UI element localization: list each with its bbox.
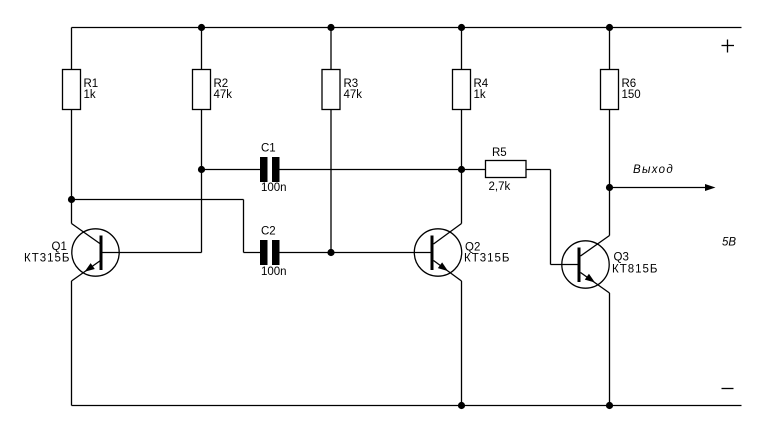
wire: R2 bottom lead down to Q1 base node — [201, 110, 203, 253]
Q2 emitter arrow — [438, 262, 448, 271]
wire: R5 to Q3 base vertical drop — [550, 170, 552, 265]
Q3 base bar — [578, 248, 581, 283]
transistor Q1 (KT315B, mirrored NPN) — [24, 224, 119, 282]
transistor Q3 (KT815B, NPN) — [562, 236, 659, 294]
svg-text:КТ315Б: КТ315Б — [464, 253, 510, 265]
svg-text:5В: 5В — [722, 237, 736, 249]
node: +V / R3 junction — [327, 24, 334, 31]
Q3 collector diagonal — [581, 236, 610, 257]
R1 body — [63, 70, 81, 110]
resistor R6 — [601, 70, 641, 110]
wire: R4 top lead — [461, 28, 463, 70]
Q2 emitter diagonal — [434, 261, 462, 282]
R3 body — [322, 70, 340, 110]
wire: Q2 emitter lead to bottom rail — [461, 281, 463, 406]
Q1 emitter arrow — [85, 263, 95, 272]
wire: Q3 emitter lead to bottom rail — [609, 293, 611, 406]
svg-text:1k: 1k — [84, 89, 96, 101]
wire: R3 bottom lead down to Q2 base net — [330, 110, 332, 253]
svg-text:1k: 1k — [474, 89, 486, 101]
wire: 0V bottom rail — [72, 405, 742, 407]
power terminal − — [722, 388, 734, 390]
svg-text:Q3: Q3 — [614, 252, 629, 264]
Q2 base bar — [431, 236, 434, 271]
svg-text:150: 150 — [622, 89, 641, 101]
capacitor C2 — [260, 226, 287, 279]
C1 right plate — [272, 157, 280, 182]
output arrow head — [705, 184, 716, 191]
svg-text:КТ315Б: КТ315Б — [24, 253, 70, 265]
node: R2 / C1 junction — [198, 166, 205, 173]
wire: output tap — [610, 187, 707, 189]
node: +V / R4 junction — [458, 24, 465, 31]
C2 left plate — [260, 240, 268, 265]
wire: R1 top lead — [71, 28, 73, 70]
resistor R3 — [322, 70, 362, 110]
node: +V / R2 junction — [198, 24, 205, 31]
svg-text:47k: 47k — [214, 89, 233, 101]
power terminal + — [722, 40, 735, 53]
svg-text:R5: R5 — [492, 147, 507, 159]
R4 body — [453, 70, 471, 110]
wire: R6 bottom lead down to Q3 collector — [609, 110, 611, 236]
wire: C1 left lead from R2 column — [202, 169, 261, 171]
node: Q2 emitter / 0V junction — [458, 402, 465, 409]
svg-text:C1: C1 — [261, 143, 276, 155]
Q3 circle — [562, 241, 609, 288]
svg-text:Выход: Выход — [633, 164, 674, 176]
R2 body — [193, 70, 211, 110]
R6 body — [601, 70, 619, 110]
wire: Q1 base lead — [103, 252, 202, 254]
svg-text:100n: 100n — [261, 182, 287, 194]
wire: C2 right lead to Q2 base — [280, 252, 431, 254]
svg-text:C2: C2 — [261, 226, 276, 238]
wire: Q3 base lead — [551, 264, 578, 266]
wire: Q1 emitter lead to bottom rail — [71, 281, 73, 406]
svg-text:100n: 100n — [261, 266, 287, 278]
Q3 emitter arrow — [585, 274, 595, 283]
wire: R2 top lead — [201, 28, 203, 70]
capacitor C1 — [260, 143, 287, 195]
wire: C2 left lead — [244, 252, 261, 254]
node: Q1 collector / C2 coupling junction — [68, 196, 75, 203]
resistor R2 — [193, 70, 233, 110]
R5 body — [486, 161, 527, 178]
C2 right plate — [272, 240, 280, 265]
wire: R5 right lead — [526, 169, 551, 171]
Q1 circle — [72, 229, 119, 276]
wire: R3 top lead — [330, 28, 332, 70]
Q1 collector diagonal — [72, 224, 101, 245]
Q2 collector diagonal — [434, 224, 462, 245]
Q1 emitter diagonal — [72, 261, 101, 282]
wire: R5 left lead — [462, 169, 486, 171]
svg-text:47k: 47k — [344, 89, 363, 101]
Q2 circle — [414, 229, 461, 276]
C1 left plate — [260, 157, 268, 182]
node: Q3 emitter / 0V junction — [606, 402, 613, 409]
node: +V / R6 junction — [606, 24, 613, 31]
Q1 base bar — [100, 236, 103, 271]
wire: R1 bottom lead down to Q1 collector — [71, 110, 73, 224]
resistor R4 — [453, 70, 489, 110]
wire: R4 bottom lead down to Q2 collector — [461, 110, 463, 224]
resistor R1 — [63, 70, 99, 110]
svg-text:2,7k: 2,7k — [489, 181, 511, 193]
wire: R6 top lead — [609, 28, 611, 70]
svg-text:КТ815Б: КТ815Б — [612, 264, 658, 276]
node: Q3 collector / output junction — [606, 184, 613, 191]
wire: cross-coupling vertical drop — [243, 200, 245, 253]
resistor R5 — [486, 147, 527, 193]
wire: C1 right lead to R4 column — [280, 169, 462, 171]
wire: +V top rail — [72, 27, 742, 29]
node: R3 / C2 / Q2 base junction — [327, 249, 334, 256]
node: Q2 collector / C1 / R5 junction — [458, 166, 465, 173]
wire: Q1 collector to C2 cross-coupling horizontal — [72, 199, 244, 201]
transistor Q2 (KT315B, NPN) — [414, 224, 510, 282]
svg-text:Q1: Q1 — [52, 241, 67, 253]
Q3 emitter diagonal — [581, 273, 610, 294]
